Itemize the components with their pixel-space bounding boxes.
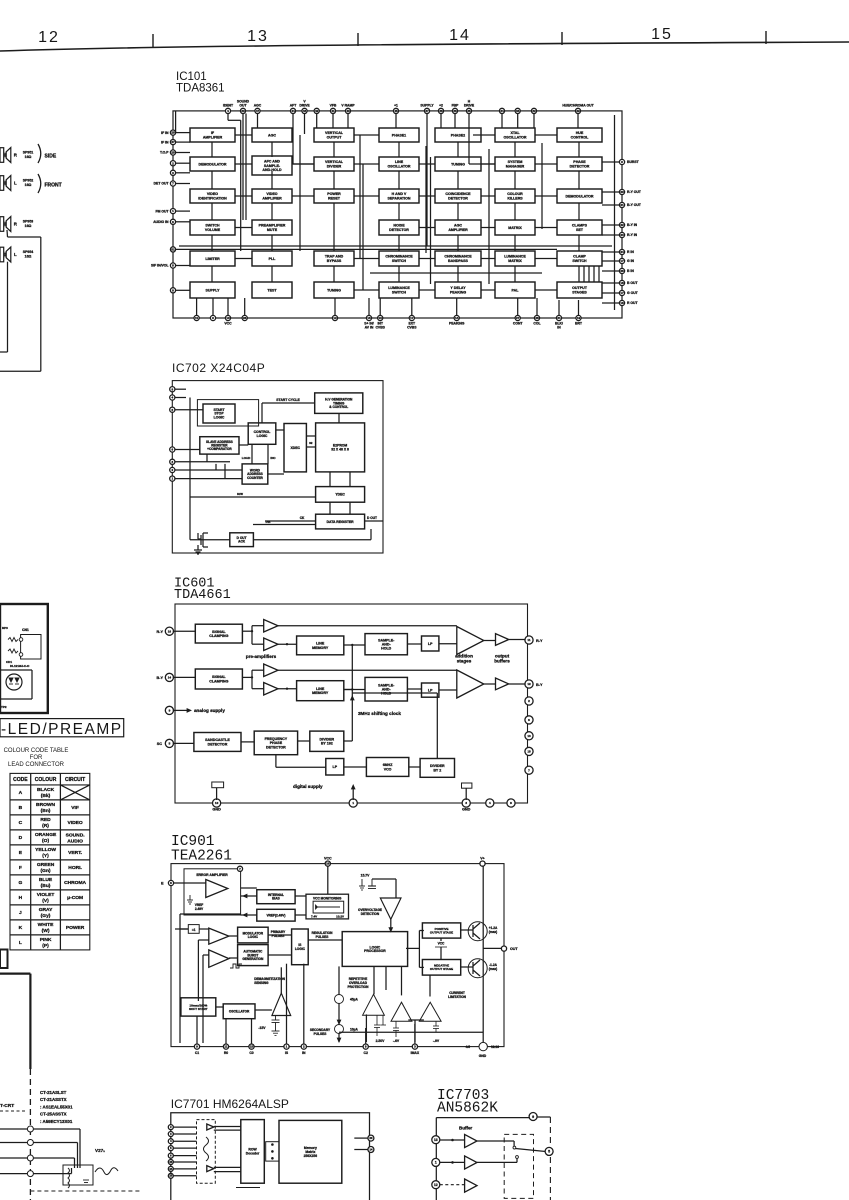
svg-text:2.49V: 2.49V	[195, 907, 204, 911]
svg-text:BROWN: BROWN	[36, 802, 55, 808]
svg-text:DEMODULATOR: DEMODULATOR	[198, 162, 226, 166]
svg-text:YELLOW: YELLOW	[35, 847, 56, 853]
addition stage triangle 1	[457, 627, 484, 655]
block H AND V SEPARATION	[379, 189, 419, 203]
transistor Q1 positive	[468, 922, 487, 941]
wire soft to osc	[216, 1006, 223, 1008]
wire V+ down	[482, 866, 484, 1042]
svg-text:R-Y: R-Y	[536, 639, 543, 643]
IC601 pin 12	[525, 680, 533, 688]
svg-text:20: 20	[620, 190, 624, 194]
IC901 pin 1	[284, 1044, 289, 1049]
speaker SP953	[0, 217, 4, 232]
svg-text:digital supply: digital supply	[293, 784, 323, 789]
svg-text:CONTROL: CONTROL	[571, 135, 590, 139]
LED D951	[6, 674, 22, 690]
IC101 right pin BURST	[619, 159, 624, 164]
IC101 top pin 43	[302, 108, 307, 113]
wire IC7701 buffer top out	[214, 1126, 241, 1128]
IC601 pin 11	[525, 636, 533, 644]
block LIMITER	[190, 251, 235, 266]
svg-text:LP: LP	[428, 688, 433, 692]
svg-text:33: 33	[516, 109, 520, 113]
svg-text:SET: SET	[576, 228, 584, 232]
IC101 right pin B OUT	[619, 280, 624, 285]
svg-text:DATA REGISTER: DATA REGISTER	[327, 520, 355, 524]
current source 10uA	[335, 1025, 344, 1034]
IC7701 right pin 14	[368, 1147, 374, 1153]
block YDEC	[316, 487, 365, 503]
svg-text:(R): (R)	[42, 823, 49, 829]
block AGC	[252, 128, 292, 142]
block START STOP LOGIC	[203, 404, 235, 423]
title LED/PREAMP box	[0, 719, 124, 737]
svg-text:B-Y OUT: B-Y OUT	[627, 203, 642, 207]
svg-text:pre-amplifiers: pre-amplifiers	[246, 654, 277, 659]
svg-text:F: F	[19, 865, 22, 871]
block OUTPUT STAGES	[557, 282, 602, 298]
wire IC7703 top	[436, 1117, 529, 1119]
svg-text:-.9V: -.9V	[433, 1039, 440, 1043]
svg-text:IF IN: IF IN	[161, 140, 169, 144]
IC101 left pin 6	[170, 219, 175, 224]
wire AFT routing	[292, 114, 294, 165]
wire D OUT line	[365, 520, 383, 522]
block SLAVE ADDRESS REGISTER COMPARATOR	[200, 437, 239, 454]
IC901 outline	[171, 864, 504, 1047]
svg-text:13: 13	[379, 316, 383, 320]
svg-text:AV IN: AV IN	[365, 326, 374, 330]
block CHROMINANCE BANDPASS	[435, 251, 481, 266]
svg-text:32: 32	[532, 109, 536, 113]
CRT thick corner	[0, 972, 30, 974]
wire IC7701 pin 5	[173, 1147, 196, 1149]
wire IDENT routing	[227, 114, 229, 121]
CRT pin 6	[0, 1128, 28, 1130]
wire WORD to XDEC	[268, 473, 284, 475]
buffer triangle 2	[465, 1156, 477, 1169]
wire IC101 vertical 430x	[430, 157, 432, 284]
wire IC101 row connectors	[235, 134, 252, 136]
colour table row A cross	[60, 785, 89, 800]
svg-text:=1: =1	[192, 928, 196, 932]
block 6MHZ VCO	[366, 758, 408, 777]
svg-text:40: 40	[346, 109, 350, 113]
svg-text:+2: +2	[439, 104, 443, 108]
IC7703 right dashed edge	[549, 1117, 551, 1200]
IC901 pin 11	[223, 1044, 228, 1049]
IC101 bottom pin 13	[378, 315, 383, 320]
zener 15.7V	[371, 879, 373, 886]
IC101 top pin 44	[290, 108, 295, 113]
svg-text:TUNING: TUNING	[327, 288, 341, 292]
svg-text:38: 38	[439, 109, 443, 113]
IC101 left pin 51	[170, 247, 175, 252]
wire IC7701 pin 23	[173, 1161, 196, 1163]
svg-text:13: 13	[247, 28, 269, 45]
svg-text:15: 15	[651, 26, 673, 43]
svg-text:11: 11	[527, 638, 531, 642]
block XDEC	[284, 424, 306, 472]
IC601 pin 1	[349, 799, 357, 807]
block COINCIDENCE DETECTOR	[435, 189, 481, 203]
wire FPD down to LP	[275, 755, 277, 768]
svg-text:LP: LP	[333, 765, 338, 769]
wire IC702 left bus	[189, 398, 191, 540]
IC7701 pin 24	[168, 1166, 173, 1171]
svg-text:FBP: FBP	[452, 104, 460, 108]
svg-text:PROCESSOR: PROCESSOR	[364, 949, 386, 953]
IC7701 outline	[171, 1113, 370, 1200]
svg-text:AUDIO: AUDIO	[67, 838, 83, 844]
svg-text:24: 24	[620, 250, 624, 254]
svg-text:HUE/CHROMA OUT: HUE/CHROMA OUT	[562, 104, 594, 108]
svg-text:B-Y: B-Y	[536, 683, 543, 687]
block VIDEO AMPLIFIER	[252, 189, 292, 203]
svg-text:MANAGER: MANAGER	[506, 164, 525, 168]
svg-text:IDENT: IDENT	[223, 104, 234, 108]
block XTAL OSCILLATOR	[495, 128, 535, 142]
pre-amplifier triangle 4	[264, 683, 278, 696]
svg-text:15: 15	[250, 1045, 254, 1049]
block PLL	[252, 251, 292, 266]
svg-text:L: L	[14, 252, 17, 257]
svg-text:& CONTROL: & CONTROL	[329, 405, 348, 409]
svg-text:SENSING: SENSING	[254, 981, 269, 985]
svg-text:PAL: PAL	[512, 288, 520, 292]
svg-text:GRAY: GRAY	[39, 907, 53, 913]
block LP 3	[326, 759, 344, 776]
IC901 pin V+	[480, 861, 485, 866]
svg-text:START CYCLE: START CYCLE	[276, 398, 300, 402]
IC601 pin 13	[525, 732, 533, 740]
svg-text:47: 47	[256, 109, 260, 113]
IC7701 pin 6	[168, 1153, 173, 1158]
speaker SP954	[0, 247, 4, 262]
svg-text:CODE: CODE	[13, 777, 28, 783]
svg-text:C0: C0	[249, 1051, 253, 1055]
svg-text:OUTPUT STAGE: OUTPUT STAGE	[430, 967, 453, 971]
wire XDEC to E2PROM	[306, 446, 315, 448]
IC7703 pin 12	[432, 1181, 440, 1189]
label FRONT brace	[38, 174, 41, 193]
wire SC to sandcastle	[173, 742, 194, 744]
IC101 top pin 38	[438, 108, 443, 113]
svg-text:D: D	[19, 835, 23, 841]
IC7703 dashed box	[504, 1134, 533, 1198]
wire E to error amp	[174, 882, 206, 884]
svg-text:4.5: 4.5	[466, 1045, 471, 1049]
svg-text:V RAMP: V RAMP	[341, 104, 355, 108]
block SAMPLE AND HOLD 2	[365, 677, 407, 701]
IC101 bottom pin 14	[454, 315, 459, 320]
svg-text:14: 14	[455, 316, 459, 320]
IC101 left pin 1	[170, 209, 175, 214]
wire osc to amp	[255, 1009, 272, 1011]
block MODULATOR LOGIC	[238, 927, 269, 943]
svg-text:SEPARATION: SEPARATION	[387, 196, 410, 200]
wire pin 51 long line	[176, 248, 557, 250]
IC702 outline	[172, 381, 383, 553]
block CLAMP SWITCH	[557, 251, 602, 266]
svg-text:VOLUME: VOLUME	[205, 228, 221, 232]
svg-text:TEA2261: TEA2261	[171, 849, 232, 865]
svg-text:TDA4661: TDA4661	[174, 588, 231, 603]
speaker SP952	[0, 176, 4, 191]
svg-text:5: 5	[548, 1150, 550, 1154]
IC601 pin 5	[165, 739, 173, 747]
IC901 pin 8	[363, 1044, 368, 1049]
svg-text:MEMORY: MEMORY	[312, 691, 329, 695]
svg-text:DRIVE: DRIVE	[299, 104, 310, 108]
svg-text:C1: C1	[195, 1051, 199, 1055]
block TUNING	[435, 157, 481, 171]
IC901 OUT pin	[501, 946, 506, 951]
capacitor -.6V	[395, 1021, 397, 1028]
IC7701 connector box	[266, 1142, 279, 1161]
IC7701 squiggle	[204, 1137, 209, 1161]
IC901 pin 6	[168, 880, 173, 885]
svg-text:11: 11	[195, 316, 199, 320]
block HV GENERATION TIMING CONTROL	[315, 393, 363, 414]
svg-text:: AS1EAL55X01: : AS1EAL55X01	[40, 1104, 73, 1109]
svg-text:16: 16	[326, 862, 330, 866]
svg-text:RP3: RP3	[2, 626, 8, 630]
wire transistors to OUT	[483, 947, 501, 949]
ruler tick 1	[152, 34, 154, 47]
svg-text:BLUE: BLUE	[39, 877, 53, 883]
svg-text:13: 13	[527, 734, 531, 738]
svg-text:CIRCUIT: CIRCUIT	[65, 777, 85, 783]
IC7701 pin 23	[168, 1160, 173, 1165]
IC101 top pin 36	[452, 108, 457, 113]
block VERTICAL DIVIDER	[314, 157, 354, 171]
svg-text:(V): (V)	[42, 898, 49, 904]
svg-text:BY 2: BY 2	[433, 768, 441, 772]
block POWER RESET	[314, 189, 354, 203]
svg-text:KILLERS: KILLERS	[507, 196, 523, 200]
svg-text:BLACK: BLACK	[37, 787, 55, 793]
wire IC901 inner bus	[197, 940, 199, 1001]
wire comparator out	[390, 919, 392, 931]
svg-text:(W): (W)	[42, 928, 50, 934]
svg-text:DRIVE: DRIVE	[464, 104, 475, 108]
IC101 right pin B-Y IN	[619, 222, 624, 227]
IC101 bottom pin 27	[515, 315, 520, 320]
svg-text:DIVIDER: DIVIDER	[327, 164, 342, 168]
LED PREAMP board outline	[0, 604, 48, 713]
svg-text:28: 28	[171, 131, 175, 135]
IC101 right pin R OUT	[619, 300, 624, 305]
comparator secondary	[391, 1002, 412, 1021]
block LINE OSCILLATOR	[379, 157, 419, 171]
switch lever	[516, 1149, 544, 1152]
svg-text:LIMITATION: LIMITATION	[448, 995, 466, 999]
resistor R951	[8, 638, 18, 642]
wire IC101 col7 quad vertical bus	[583, 266, 585, 282]
wire gate to opamp	[199, 928, 209, 930]
vref symbol	[189, 895, 191, 900]
svg-text:TUNING: TUNING	[451, 162, 465, 166]
IC7701 pin 4	[168, 1139, 173, 1144]
block HUE CONTROL	[557, 128, 602, 142]
wire IC7703 in1	[440, 1139, 465, 1141]
wire ML to IS	[268, 934, 292, 936]
svg-text:DETECTOR: DETECTOR	[389, 228, 409, 232]
IC101 left pin 27	[170, 140, 175, 145]
svg-text:FM OUT: FM OUT	[156, 209, 170, 213]
IC702 start-stop container	[197, 400, 258, 426]
IC601 pin 2	[525, 697, 533, 705]
block IF AMPLIFIER	[190, 128, 235, 142]
svg-text:COL: COL	[533, 322, 540, 326]
svg-text:(Bk): (Bk)	[41, 793, 51, 799]
block DEMODULATOR	[190, 157, 235, 171]
svg-text:IN: IN	[302, 1051, 306, 1055]
IC601 pin 16	[165, 627, 173, 635]
transistor Q2 negative	[468, 959, 487, 978]
pre-amplifier triangle 2	[264, 638, 278, 651]
wire 10uA bus	[339, 1031, 483, 1033]
block VCC MONITORING	[306, 894, 349, 919]
IC101 right pin R IN	[619, 249, 624, 254]
svg-text:DETECTION: DETECTION	[361, 912, 380, 916]
svg-text:T-CRT: T-CRT	[0, 1103, 14, 1109]
IC901 pin 3	[412, 1044, 417, 1049]
svg-text:COLOUR CODE TABLE: COLOUR CODE TABLE	[4, 748, 69, 754]
switch contact b	[516, 1156, 519, 1159]
svg-text:H: H	[19, 895, 23, 901]
CRT dash line vertical	[29, 1069, 31, 1200]
IC601 pin 4	[486, 799, 494, 807]
wire IC101 right inner bus	[614, 115, 616, 310]
wire IC7701 buffer bottom out	[214, 1166, 241, 1168]
svg-text:CVBS: CVBS	[407, 326, 417, 330]
wire IC7701 pin 4	[173, 1140, 196, 1142]
CRT dashed horizontal	[0, 1110, 27, 1112]
IC601 pin 15	[525, 747, 533, 755]
switch contact a	[513, 1146, 516, 1149]
wire IC7703 in2	[440, 1161, 465, 1163]
CRT pin 8	[0, 1157, 28, 1159]
svg-text:45μA: 45μA	[350, 998, 358, 1002]
svg-text:Decoder: Decoder	[246, 1152, 260, 1156]
svg-text:16: 16	[168, 629, 172, 633]
svg-text:LOGIC: LOGIC	[295, 947, 306, 951]
block MATRIX	[495, 220, 535, 235]
svg-text:ACK: ACK	[238, 540, 246, 544]
wire digital supply arrow	[352, 789, 354, 800]
svg-text:LIMITER: LIMITER	[205, 257, 220, 261]
svg-text:GREEN: GREEN	[37, 862, 55, 868]
capacitor C602	[462, 783, 472, 788]
block SANDCASTLE DETECTOR	[194, 733, 241, 752]
svg-text:(Gy): (Gy)	[41, 913, 51, 919]
svg-text:14: 14	[168, 675, 172, 679]
IC101 top pin 40	[345, 108, 350, 113]
svg-text:TDA8361: TDA8361	[176, 83, 225, 95]
wire SLAVE to CONTROL	[239, 444, 248, 446]
svg-text:DETECTOR: DETECTOR	[570, 164, 590, 168]
block SIGNAL CLAMPING 2	[195, 669, 242, 689]
svg-text:T.O.P: T.O.P	[160, 151, 169, 155]
IC101 bottom pin 15	[366, 315, 371, 320]
svg-text:ERROR AMPLIFIER: ERROR AMPLIFIER	[196, 873, 228, 877]
block FREQUENCY PHASE DETECTOR	[254, 731, 297, 755]
svg-text:12: 12	[333, 316, 337, 320]
comparator repetitive	[363, 994, 385, 1015]
wire cap 3	[465, 788, 467, 800]
IC101 bottom pin 31	[556, 315, 561, 320]
IC101 right pin R-Y IN	[619, 232, 624, 237]
IC702 pin 8	[170, 387, 175, 392]
IC101 right pin B IN	[619, 268, 624, 273]
op-amp burst	[209, 950, 229, 967]
svg-text:SC: SC	[157, 742, 163, 746]
wire VCO to divider2	[409, 766, 420, 768]
svg-text:OUTPUT: OUTPUT	[327, 135, 343, 139]
svg-text:SIDE: SIDE	[45, 154, 57, 160]
svg-text:STAGES: STAGES	[572, 290, 587, 294]
op-amp demag	[272, 993, 291, 1015]
svg-text:44: 44	[291, 109, 295, 113]
svg-text:PEAKING: PEAKING	[449, 322, 465, 326]
svg-text:B-Y: B-Y	[156, 676, 163, 680]
svg-text:AN5862K: AN5862K	[437, 1101, 498, 1117]
block TUNING	[314, 282, 354, 298]
block CLAMPS SET	[557, 220, 602, 235]
svg-text:μ-COM: μ-COM	[67, 895, 83, 901]
svg-text:41: 41	[331, 109, 335, 113]
block ROW DECODER	[241, 1120, 264, 1184]
svg-text:PULSES: PULSES	[314, 1032, 327, 1036]
wire cap 10	[216, 788, 218, 800]
wire IC7701 pin 24	[173, 1168, 196, 1170]
svg-text:IC702 X24C04P: IC702 X24C04P	[172, 361, 265, 375]
IC7703 pin 5	[545, 1147, 553, 1155]
svg-text:PHASE1: PHASE1	[392, 133, 406, 137]
block WORD ADDRESS COUNTER	[242, 464, 268, 484]
block TEST	[252, 282, 292, 298]
svg-text:G OUT: G OUT	[627, 291, 639, 295]
svg-text:VIDEO: VIDEO	[67, 820, 82, 826]
svg-text:17: 17	[620, 291, 624, 295]
svg-text:SIF IN/VOL: SIF IN/VOL	[151, 264, 169, 268]
svg-text:-LED/PREAMP: -LED/PREAMP	[1, 721, 123, 738]
wire CONTROL to WORD ADDRESS	[251, 444, 253, 464]
wire IC101 vertical 489x	[488, 149, 490, 284]
block OSCILLATOR	[223, 1004, 255, 1019]
block PHASE2	[435, 128, 481, 142]
wire analog supply arrow	[173, 709, 187, 711]
svg-text:GND: GND	[462, 808, 471, 812]
svg-text:LOGIC: LOGIC	[214, 416, 225, 420]
svg-text:OUT: OUT	[510, 947, 518, 951]
wire IC101 left top link	[175, 111, 177, 133]
svg-text:TP2: TP2	[1, 705, 7, 709]
wire IC101 vertical 246x	[245, 114, 247, 221]
svg-text:27: 27	[171, 140, 175, 144]
wire IC901 bottom stubs	[196, 1016, 198, 1044]
svg-text:LOGIC: LOGIC	[257, 434, 268, 438]
wire YDEC to DATA REGISTER	[329, 502, 331, 514]
svg-text:CONT: CONT	[513, 322, 524, 326]
IC7701 input dashed box	[197, 1120, 216, 1184]
IC101 outline	[173, 111, 622, 318]
wire IC101 vertical 300x	[299, 135, 301, 251]
block LUMINANCE SWITCH	[379, 282, 419, 298]
svg-text:VFB: VFB	[330, 104, 337, 108]
